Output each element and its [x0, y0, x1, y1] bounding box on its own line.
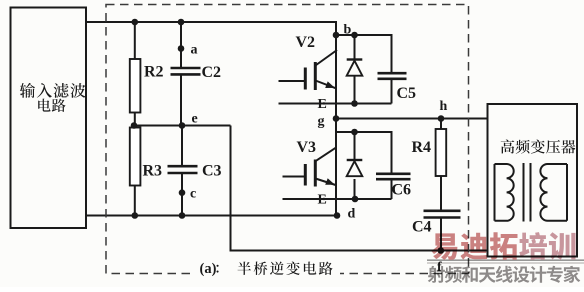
svg-text:C5: C5: [397, 85, 417, 102]
svg-text:C2: C2: [202, 64, 222, 81]
svg-text:E: E: [318, 97, 327, 112]
svg-text:(a): (a): [200, 261, 217, 277]
svg-text:R3: R3: [143, 163, 163, 180]
svg-text:c: c: [190, 186, 196, 201]
svg-text:a: a: [191, 43, 198, 58]
svg-text:b: b: [344, 23, 352, 38]
svg-text:E: E: [318, 193, 327, 208]
svg-text:C3: C3: [202, 163, 222, 180]
svg-text:R2: R2: [144, 63, 164, 80]
svg-text:V3: V3: [297, 139, 317, 156]
svg-text:g: g: [318, 114, 325, 129]
svg-text:C6: C6: [392, 182, 412, 199]
svg-text:V2: V2: [296, 34, 316, 51]
svg-text:d: d: [348, 207, 356, 222]
svg-text:h: h: [440, 99, 448, 114]
svg-text:C4: C4: [412, 219, 432, 236]
svg-text:e: e: [192, 112, 198, 127]
svg-text:R4: R4: [412, 139, 432, 156]
